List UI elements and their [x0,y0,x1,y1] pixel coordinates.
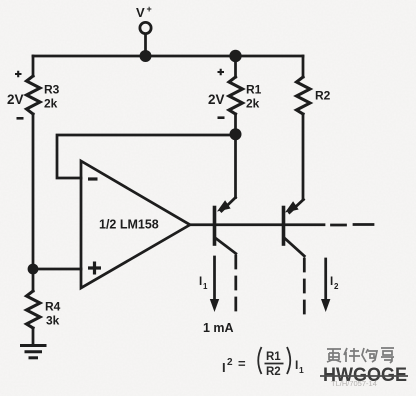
svg-text:=: = [238,356,246,371]
svg-text:3k: 3k [46,314,60,328]
svg-text:1/2 LM158: 1/2 LM158 [99,218,159,232]
svg-text:1 mA: 1 mA [203,321,234,335]
svg-text:R4: R4 [45,300,61,314]
svg-text:2V: 2V [208,92,225,107]
svg-text:V: V [136,5,145,20]
svg-text:1: 1 [299,365,304,375]
svg-text:+: + [147,4,152,14]
svg-text:R1: R1 [246,83,262,97]
svg-text:TL/H/7057-14: TL/H/7057-14 [331,379,377,388]
svg-text:R3: R3 [44,83,60,97]
svg-text:R2: R2 [315,89,331,103]
svg-text:R1: R1 [266,351,281,363]
svg-text:I: I [330,276,333,288]
svg-text:2V: 2V [7,92,24,107]
svg-text:R2: R2 [266,366,281,378]
svg-text:2: 2 [334,282,339,291]
svg-text:2: 2 [227,357,233,368]
svg-text:I: I [295,358,298,372]
svg-text:I: I [222,360,226,375]
svg-text:I: I [199,276,202,288]
svg-text:1: 1 [203,282,208,291]
svg-text:2k: 2k [246,97,260,111]
svg-text:2k: 2k [44,97,58,111]
